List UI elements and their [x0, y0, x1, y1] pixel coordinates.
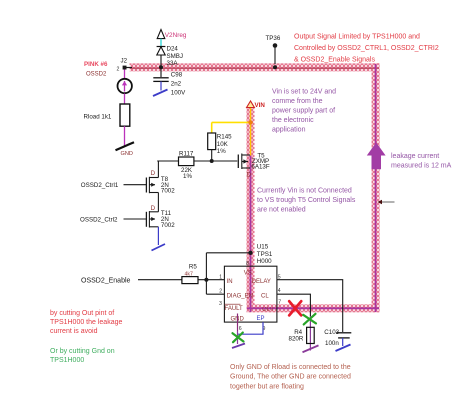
svg-text:C98: C98: [171, 72, 183, 79]
svg-text:PINK #6: PINK #6: [84, 61, 108, 68]
svg-text:EP: EP: [257, 316, 265, 322]
svg-text:Rload 1k1: Rload 1k1: [84, 114, 112, 121]
svg-text:4: 4: [278, 288, 281, 294]
svg-text:Vin is set to 24V and: Vin is set to 24V and: [272, 88, 336, 95]
svg-text:100V: 100V: [171, 90, 186, 97]
svg-text:R117: R117: [179, 150, 194, 157]
svg-text:V2Nreg: V2Nreg: [165, 32, 187, 39]
svg-text:OUT: OUT: [262, 307, 275, 313]
svg-text:D: D: [247, 171, 252, 178]
svg-text:GND: GND: [121, 151, 133, 157]
svg-text:comme from the: comme from the: [272, 98, 323, 105]
svg-text:together but are floating: together but are floating: [230, 383, 304, 390]
svg-text:3: 3: [219, 301, 222, 307]
svg-text:to VS trough T5 Control Signal: to VS trough T5 Control Signals: [257, 197, 356, 204]
svg-text:6A13F: 6A13F: [251, 163, 269, 170]
svg-text:1: 1: [219, 274, 222, 280]
svg-text:by cutting Out pint of: by cutting Out pint of: [50, 310, 114, 317]
svg-text:OSSD2: OSSD2: [86, 72, 107, 78]
svg-text:CL: CL: [261, 293, 269, 299]
svg-text:8: 8: [246, 261, 249, 267]
svg-text:Ground, The other GND are conn: Ground, The other GND are connected: [230, 374, 351, 381]
svg-text:leakage current: leakage current: [391, 153, 439, 160]
svg-text:the electronic: the electronic: [272, 117, 314, 124]
svg-text:Currently Vin is not Connected: Currently Vin is not Connected: [257, 187, 352, 194]
svg-text:Controlled by OSSD2_CTRL1, OSS: Controlled by OSSD2_CTRL1, OSSD2_CTRI2: [294, 45, 439, 52]
svg-text:1%: 1%: [217, 148, 226, 155]
svg-text:Output Signal Limited by TPS1H: Output Signal Limited by TPS1H000 and: [294, 33, 420, 40]
svg-text:H000: H000: [257, 258, 272, 265]
svg-text:2: 2: [117, 67, 120, 73]
svg-text:application: application: [272, 126, 306, 133]
svg-text:IN: IN: [227, 279, 233, 285]
svg-text:DIAG_EN: DIAG_EN: [227, 293, 253, 299]
svg-text:OSSD2_Ctrl2: OSSD2_Ctrl2: [80, 217, 118, 224]
svg-text:7: 7: [278, 299, 281, 305]
svg-text:TPS1H000: TPS1H000: [50, 357, 84, 364]
svg-text:Only GND of Rload is connected: Only GND of Rload is connected to the: [230, 364, 351, 371]
svg-text:TP36: TP36: [266, 35, 281, 42]
svg-text:DELAY: DELAY: [252, 279, 271, 285]
svg-text:820R: 820R: [289, 336, 304, 343]
svg-text:33A: 33A: [167, 60, 179, 67]
svg-text:measured is 12 mA: measured is 12 mA: [391, 163, 452, 170]
svg-text:D: D: [151, 205, 156, 212]
svg-text:TPS1: TPS1: [257, 251, 273, 258]
svg-text:FAULT: FAULT: [225, 306, 244, 312]
svg-text:7002: 7002: [161, 188, 175, 195]
svg-text:2: 2: [219, 288, 222, 294]
svg-text:1%: 1%: [183, 173, 192, 180]
svg-text:R145: R145: [217, 134, 232, 141]
svg-text:VIN: VIN: [255, 102, 266, 109]
svg-text:10K: 10K: [217, 141, 229, 148]
svg-text:TPS1H000 the leakage: TPS1H000 the leakage: [50, 319, 122, 326]
svg-text:R5: R5: [189, 263, 197, 270]
svg-text:U15: U15: [257, 244, 269, 251]
svg-text:4k7: 4k7: [185, 271, 193, 277]
svg-text:are not enabled: are not enabled: [257, 207, 306, 214]
svg-text:OSSD2_Enable: OSSD2_Enable: [81, 277, 131, 284]
svg-text:Or by cutting Gnd on: Or by cutting Gnd on: [50, 348, 115, 355]
svg-text:J2: J2: [121, 58, 128, 65]
svg-text:D: D: [151, 170, 156, 177]
svg-text:2n2: 2n2: [171, 81, 182, 88]
svg-text:C103: C103: [324, 329, 339, 336]
svg-text:100n: 100n: [325, 340, 339, 347]
svg-text:7002: 7002: [161, 222, 175, 229]
svg-text:power supply part of: power supply part of: [272, 107, 335, 114]
svg-text:& OSSD2_Enable Signals: & OSSD2_Enable Signals: [294, 56, 375, 63]
svg-text:current is avoid: current is avoid: [50, 328, 98, 335]
svg-text:OSSD2_Ctrl1: OSSD2_Ctrl1: [81, 182, 119, 189]
svg-text:VS: VS: [244, 270, 252, 276]
svg-text:SMBJ: SMBJ: [167, 53, 184, 60]
svg-text:D24: D24: [167, 46, 179, 53]
svg-text:6: 6: [239, 326, 242, 332]
